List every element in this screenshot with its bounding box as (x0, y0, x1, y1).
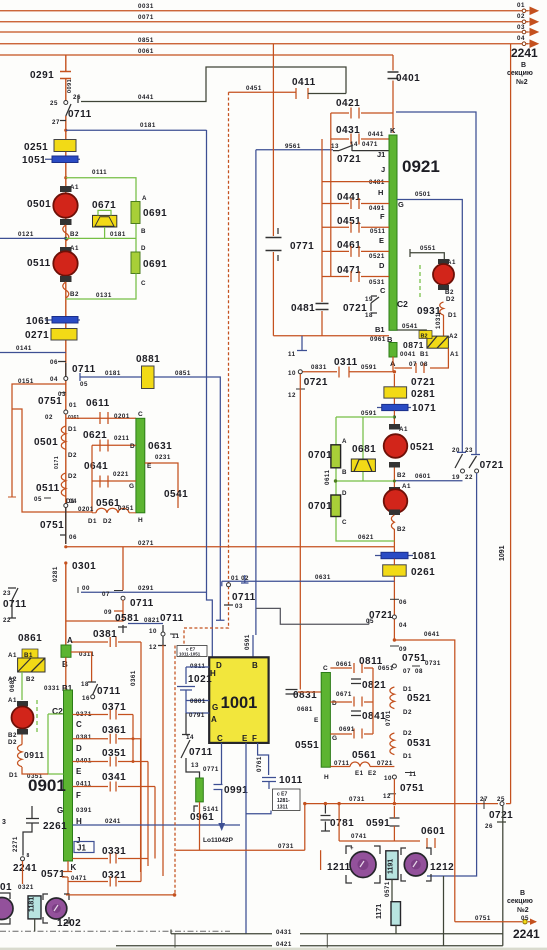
riser (91, 445, 93, 513)
svg-text:0501: 0501 (415, 191, 431, 198)
green wire 0681 to motor (21, 672, 23, 700)
svg-text:0681: 0681 (297, 706, 313, 713)
svg-text:J1: J1 (377, 150, 385, 159)
svg-text:D1: D1 (403, 753, 412, 760)
svg-text:B2: B2 (421, 334, 428, 340)
svg-text:0741: 0741 (351, 833, 367, 840)
svg-text:C: C (342, 519, 347, 526)
svg-text:0431: 0431 (336, 125, 360, 136)
svg-text:D2: D2 (403, 709, 412, 716)
svg-text:0711: 0711 (3, 599, 27, 610)
svg-text:0621: 0621 (83, 430, 107, 441)
svg-text:1202: 1202 (57, 918, 81, 929)
dashed red vertical x175 (174, 646, 176, 894)
svg-text:0751: 0751 (475, 915, 491, 922)
svg-text:0711: 0711 (232, 592, 256, 603)
svg-text:0731: 0731 (425, 660, 441, 667)
svg-text:0071: 0071 (138, 14, 154, 21)
svg-text:01: 01 (0, 882, 12, 893)
blue wire top right (396, 112, 476, 455)
wire 0031 top line 1 (0, 10, 528, 12)
svg-text:E: E (76, 767, 82, 776)
svg-text:0531: 0531 (369, 279, 385, 286)
svg-text:06: 06 (399, 599, 407, 606)
svg-text:A1: A1 (399, 426, 408, 433)
wire 9561 corner (256, 150, 333, 635)
red wire to dashed junction (66, 894, 176, 896)
svg-text:В: В (521, 62, 526, 69)
svg-text:0751: 0751 (402, 653, 426, 664)
svg-text:0361: 0361 (130, 670, 137, 686)
scan edge strip bottom (0, 948, 547, 950)
svg-text:0271: 0271 (138, 540, 154, 547)
svg-text:E: E (147, 463, 152, 470)
relay bar 0901 (64, 690, 73, 861)
svg-text:0041: 0041 (400, 351, 416, 358)
svg-text:19: 19 (452, 474, 460, 481)
svg-text:C: C (217, 734, 223, 743)
svg-text:0331: 0331 (44, 685, 60, 692)
svg-text:0871: 0871 (403, 340, 424, 350)
wire 0751 arrow to section 2 (455, 921, 536, 923)
svg-text:01 02: 01 02 (231, 575, 249, 582)
svg-text:B2: B2 (70, 291, 79, 298)
svg-text:0711: 0711 (68, 109, 92, 120)
svg-text:0921: 0921 (402, 157, 440, 176)
svg-text:D1: D1 (88, 518, 97, 525)
svg-text:10: 10 (288, 370, 296, 377)
svg-text:E: E (314, 717, 319, 724)
svg-text:0761: 0761 (256, 756, 263, 772)
svg-text:0431: 0431 (276, 929, 292, 936)
svg-text:0331: 0331 (102, 846, 126, 857)
svg-text:№2: №2 (516, 78, 528, 86)
svg-text:1011-1051: 1011-1051 (179, 652, 201, 657)
svg-text:0571: 0571 (41, 869, 65, 880)
svg-text:B1: B1 (375, 325, 385, 334)
svg-text:0731: 0731 (349, 796, 365, 803)
svg-text:0371: 0371 (102, 702, 126, 713)
svg-text:C2: C2 (397, 299, 408, 309)
svg-text:0291: 0291 (138, 585, 154, 592)
svg-text:22: 22 (465, 474, 473, 481)
svg-text:0791: 0791 (189, 712, 205, 719)
svg-text:D1: D1 (68, 426, 77, 433)
svg-text:0591: 0591 (361, 364, 377, 371)
svg-text:0991: 0991 (224, 785, 248, 796)
svg-text:05: 05 (366, 618, 374, 625)
svg-text:0231: 0231 (155, 454, 171, 461)
svg-text:1031: 1031 (435, 313, 442, 329)
svg-text:09: 09 (399, 646, 407, 653)
junction 0641 wire (393, 638, 396, 641)
svg-text:0211: 0211 (114, 435, 129, 442)
svg-text:0711: 0711 (72, 364, 96, 375)
svg-text:D: D (332, 700, 337, 707)
wire 0271 horizontal (64, 545, 67, 548)
svg-text:J: J (381, 165, 385, 174)
svg-text:06: 06 (69, 534, 77, 541)
svg-text:D: D (216, 661, 222, 670)
svg-text:0591: 0591 (244, 634, 251, 650)
svg-text:A: A (67, 636, 73, 645)
green wire 0131 (64, 237, 67, 240)
svg-text:B2: B2 (70, 231, 79, 238)
svg-text:B2: B2 (445, 289, 454, 296)
svg-text:Lо11042P: Lо11042P (203, 837, 234, 844)
svg-text:16: 16 (82, 695, 90, 702)
svg-text:0751: 0751 (38, 396, 62, 407)
svg-text:0441: 0441 (138, 94, 154, 101)
svg-text:D2: D2 (403, 730, 412, 737)
svg-text:0681: 0681 (9, 676, 16, 692)
svg-text:11: 11 (288, 351, 296, 358)
svg-text:0171: 0171 (54, 456, 60, 469)
svg-text:E: E (379, 236, 384, 245)
svg-text:0851: 0851 (175, 370, 191, 377)
wire 0061 line 5 (0, 54, 393, 56)
svg-text:G: G (129, 483, 134, 490)
svg-text:01: 01 (69, 402, 77, 409)
resistor 0251 (54, 140, 76, 152)
svg-text:C: C (76, 720, 82, 729)
F pin chain 0761/1011 (258, 743, 276, 789)
svg-text:0301: 0301 (72, 561, 96, 572)
svg-text:0541: 0541 (402, 323, 418, 330)
svg-text:0481: 0481 (291, 303, 315, 314)
svg-text:0601: 0601 (421, 826, 445, 837)
wire 0551 (410, 249, 444, 259)
svg-text:A1: A1 (8, 697, 17, 704)
svg-text:0701: 0701 (308, 501, 332, 512)
svg-text:D2: D2 (8, 739, 17, 746)
svg-text:0151: 0151 (18, 378, 34, 385)
svg-text:0391: 0391 (76, 807, 92, 814)
svg-text:0671: 0671 (336, 691, 352, 698)
svg-text:00: 00 (82, 585, 90, 592)
capacitor 1081 (375, 555, 413, 557)
resistor 0261 (383, 565, 407, 576)
svg-text:2271: 2271 (12, 836, 19, 852)
wire 0731 long (176, 804, 305, 851)
svg-text:B: B (342, 469, 347, 476)
svg-text:D1: D1 (448, 312, 457, 319)
blue wire 0141 (0, 352, 66, 354)
relay bar 0921 (389, 135, 397, 330)
svg-text:0511: 0511 (370, 228, 385, 235)
svg-text:0691: 0691 (143, 259, 167, 270)
svg-text:18: 18 (81, 681, 89, 688)
svg-text:0641: 0641 (84, 461, 108, 472)
svg-text:B: B (252, 661, 258, 670)
svg-text:0441: 0441 (368, 131, 384, 138)
svg-text:14: 14 (350, 141, 358, 148)
contact 0711 (66, 104, 71, 116)
node 11 tick (297, 336, 307, 351)
svg-text:0601: 0601 (415, 473, 431, 480)
capacitor 0821 (351, 679, 361, 684)
svg-text:0251: 0251 (118, 505, 134, 512)
svg-text:07: 07 (102, 591, 110, 598)
blue wire 0121 (0, 237, 66, 239)
svg-text:G: G (398, 200, 404, 209)
capacitor 0991 + arrow Lo11042P (214, 743, 223, 825)
svg-text:25: 25 (50, 100, 58, 107)
svg-text:01: 01 (517, 2, 525, 9)
svg-text:C: C (380, 286, 386, 295)
svg-text:0711: 0711 (97, 686, 121, 697)
wire right vertical bus x511 (510, 44, 512, 804)
svg-text:0581: 0581 (115, 613, 139, 624)
svg-text:0481: 0481 (369, 179, 385, 186)
dashed orange vertical x230 (184, 92, 229, 645)
contact 0661/0811 row (330, 663, 373, 673)
svg-text:0491: 0491 (369, 205, 385, 212)
svg-text:0321: 0321 (102, 870, 126, 881)
wire 0431 bottom (171, 930, 503, 934)
capacitor 0781 (321, 804, 331, 831)
svg-text:0591: 0591 (366, 818, 390, 829)
svg-text:0811: 0811 (359, 656, 383, 667)
svg-text:0351: 0351 (102, 748, 126, 759)
svg-text:0611: 0611 (86, 398, 110, 409)
svg-text:02: 02 (517, 13, 525, 20)
motor 1202 (43, 894, 69, 923)
contact 0671 row (330, 697, 373, 707)
transducer 0701 A-B (331, 445, 341, 468)
svg-text:27: 27 (52, 119, 60, 126)
svg-text:0181: 0181 (110, 231, 126, 238)
svg-text:0611: 0611 (324, 470, 331, 485)
blue vertical x256 (0591 to B pin) (252, 635, 254, 657)
svg-text:0771: 0771 (203, 766, 219, 773)
svg-text:0711: 0711 (160, 613, 184, 624)
svg-text:0851: 0851 (138, 37, 154, 44)
relay bar 0631 (136, 418, 145, 513)
switch arm 0721 to 05 (256, 608, 369, 624)
svg-text:0721: 0721 (411, 377, 435, 388)
svg-text:K: K (390, 126, 396, 135)
svg-text:03: 03 (235, 603, 243, 610)
svg-text:13: 13 (191, 762, 199, 769)
svg-text:D2: D2 (68, 452, 77, 459)
wire 0851 line 4 (0, 43, 528, 45)
svg-text:1001: 1001 (221, 694, 258, 712)
svg-text:1061: 1061 (26, 316, 50, 327)
svg-text:D2: D2 (103, 518, 112, 525)
svg-text:1171: 1171 (376, 904, 383, 919)
svg-text:0721: 0721 (337, 154, 361, 165)
rail x330 (330, 113, 332, 277)
svg-text:05: 05 (521, 915, 529, 922)
svg-text:1021: 1021 (188, 674, 212, 685)
svg-text:3: 3 (2, 819, 6, 826)
svg-text:секцию: секцию (507, 898, 533, 905)
bus x123 + contact 0711 (122, 547, 124, 590)
svg-text:0641: 0641 (424, 631, 440, 638)
wire 0741 (339, 804, 420, 841)
svg-text:0471: 0471 (337, 265, 361, 276)
svg-text:0721: 0721 (480, 460, 504, 471)
green wire 0591 (393, 415, 396, 418)
svg-text:G: G (212, 703, 218, 712)
svg-text:0771: 0771 (290, 241, 314, 252)
dash-dot line left (0, 930, 230, 932)
svg-text:0821: 0821 (362, 680, 386, 691)
svg-text:0241: 0241 (105, 818, 121, 825)
svg-text:0381: 0381 (76, 734, 92, 741)
capacitor 0401 (392, 55, 394, 133)
svg-text:0251: 0251 (24, 142, 48, 153)
svg-text:0631: 0631 (315, 574, 331, 581)
svg-text:0061: 0061 (138, 48, 154, 55)
svg-text:0671: 0671 (92, 200, 116, 211)
svg-text:A2: A2 (449, 333, 458, 340)
svg-text:0421: 0421 (276, 941, 292, 948)
svg-text:G: G (332, 735, 337, 742)
svg-text:0221: 0221 (113, 471, 129, 478)
svg-text:0461: 0461 (337, 240, 361, 251)
svg-text:0711: 0711 (189, 747, 213, 758)
svg-text:0561: 0561 (96, 498, 120, 509)
svg-text:0291: 0291 (30, 70, 54, 81)
bus x66 contact 07/09 (65, 563, 67, 645)
box с Е7 1011-1051 (177, 646, 207, 657)
svg-text:0201: 0201 (114, 413, 130, 420)
svg-text:2261: 2261 (43, 821, 67, 832)
junction / wire 0181 (64, 129, 67, 132)
E pin wire down (245, 743, 247, 934)
svg-text:D2: D2 (68, 473, 77, 480)
svg-text:1051: 1051 (22, 155, 46, 166)
wire line 3 (0, 31, 528, 33)
svg-text:0511: 0511 (27, 258, 51, 269)
svg-text:06: 06 (50, 359, 58, 366)
motor 1211 (346, 846, 380, 883)
svg-text:0721: 0721 (304, 377, 328, 388)
capacitor 1061 (45, 319, 80, 321)
wire 0541 (397, 329, 427, 331)
svg-text:0271: 0271 (25, 330, 49, 341)
svg-text:2241: 2241 (13, 863, 37, 874)
node 25 (64, 101, 68, 105)
relay 0871 (427, 336, 449, 348)
svg-text:B: B (62, 660, 68, 669)
svg-text:9561: 9561 (285, 143, 301, 150)
orange row 0831/0311/0591 (302, 367, 394, 378)
svg-text:23: 23 (465, 447, 473, 454)
svg-text:0401: 0401 (396, 73, 420, 84)
svg-text:1181: 1181 (29, 897, 36, 912)
svg-text:D: D (342, 490, 347, 497)
svg-text:2241: 2241 (511, 46, 538, 60)
resistor 0281 (384, 387, 407, 398)
svg-text:0471: 0471 (362, 141, 378, 148)
motor left clipped (0, 893, 10, 924)
svg-text:2241: 2241 (513, 927, 540, 941)
svg-text:8: 8 (27, 853, 30, 859)
blue wire to 19 contact (394, 480, 462, 482)
svg-text:1211: 1211 (327, 862, 351, 873)
row E / 0231 (145, 463, 178, 508)
wire A1 down + contact 07/08 (394, 348, 448, 373)
blue wire 0631 (222, 581, 395, 586)
svg-text:B: B (387, 335, 393, 344)
svg-text:0511: 0511 (36, 483, 60, 494)
svg-text:B1: B1 (420, 351, 429, 358)
svg-text:0381: 0381 (93, 629, 117, 640)
svg-text:0681: 0681 (352, 444, 376, 455)
svg-text:0691: 0691 (143, 208, 167, 219)
svg-text:0441: 0441 (337, 192, 361, 203)
svg-text:D1: D1 (403, 686, 412, 693)
svg-text:0831: 0831 (311, 364, 327, 371)
svg-text:№2: №2 (517, 906, 529, 914)
capacitor 1051 (45, 158, 80, 160)
svg-text:0711: 0711 (130, 598, 154, 609)
svg-text:0501: 0501 (27, 199, 51, 210)
svg-text:F: F (76, 791, 81, 800)
fuse 0291 (60, 72, 71, 79)
svg-text:0571: 0571 (384, 881, 391, 897)
svg-text:0411: 0411 (292, 77, 316, 88)
wire 0071 line 2 (0, 21, 528, 23)
svg-text:04: 04 (69, 498, 77, 505)
svg-text:D: D (76, 744, 82, 753)
svg-text:08: 08 (415, 668, 423, 675)
svg-text:0701: 0701 (308, 450, 332, 461)
wire row C / label 0201 (66, 417, 136, 419)
svg-text:0521: 0521 (369, 253, 385, 260)
svg-text:0281: 0281 (411, 389, 435, 400)
svg-text:0561: 0561 (352, 750, 376, 761)
motor 1212 (401, 848, 431, 881)
capacitor 1071 (377, 407, 411, 409)
svg-text:02: 02 (45, 414, 53, 421)
svg-text:1091: 1091 (499, 545, 506, 561)
orange vertical x322 + capacitor 0481 (321, 139, 323, 336)
svg-text:0181: 0181 (105, 370, 121, 377)
svg-text:1081: 1081 (412, 551, 436, 562)
green wire 0131b (66, 274, 136, 300)
svg-text:0281: 0281 (52, 566, 59, 582)
unit 1001 (209, 657, 268, 743)
svg-text:0881: 0881 (136, 354, 160, 365)
svg-text:07: 07 (403, 668, 411, 675)
svg-text:0721: 0721 (343, 303, 367, 314)
svg-text:D1: D1 (9, 772, 18, 779)
svg-text:1281-: 1281- (277, 798, 290, 804)
svg-text:10: 10 (384, 775, 392, 782)
svg-text:0451: 0451 (337, 216, 361, 227)
svg-text:0521: 0521 (410, 442, 434, 453)
svg-text:0631: 0631 (148, 441, 172, 452)
svg-text:0721: 0721 (489, 810, 513, 821)
svg-text:+: + (350, 846, 354, 852)
svg-text:13: 13 (331, 143, 339, 150)
svg-text:08: 08 (420, 361, 428, 368)
svg-text:0541: 0541 (164, 489, 188, 500)
svg-text:A1: A1 (450, 351, 459, 358)
svg-text:0661: 0661 (336, 661, 352, 668)
svg-text:0961: 0961 (190, 812, 214, 823)
svg-text:0111: 0111 (92, 169, 107, 176)
svg-text:23: 23 (3, 590, 11, 597)
svg-text:E2: E2 (368, 770, 377, 777)
junction / green wire 0111 (64, 176, 67, 179)
svg-text:0421: 0421 (336, 98, 360, 109)
svg-text:0091: 0091 (67, 79, 73, 93)
